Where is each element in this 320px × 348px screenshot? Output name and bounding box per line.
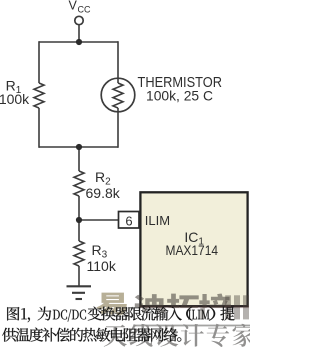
svg-text:V: V (69, 0, 78, 13)
svg-text:MAX1714: MAX1714 (166, 242, 219, 258)
svg-text:110k: 110k (87, 258, 117, 274)
svg-text:69.8k: 69.8k (86, 185, 121, 201)
svg-text:6: 6 (125, 214, 132, 229)
svg-text:ILIM: ILIM (145, 213, 170, 228)
svg-text:100k, 25 C: 100k, 25 C (146, 88, 213, 104)
svg-text:CC: CC (78, 5, 91, 15)
svg-text:100k: 100k (0, 91, 30, 107)
